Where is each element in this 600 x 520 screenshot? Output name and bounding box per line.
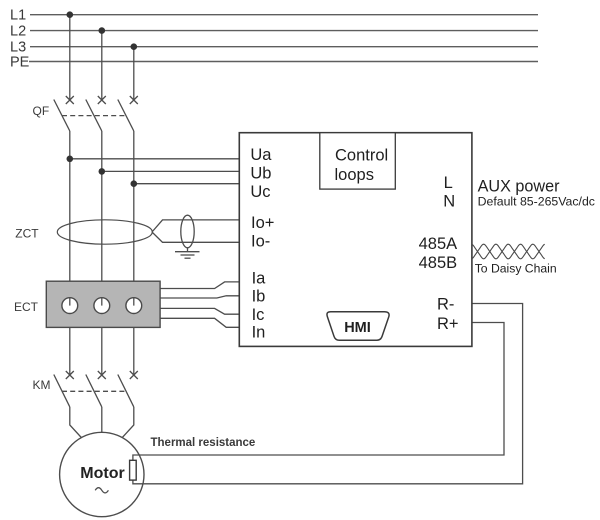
svg-text:KM: KM [33,378,51,392]
svg-text:485A: 485A [419,235,458,253]
svg-text:loops: loops [335,166,374,184]
svg-text:R-: R- [437,296,454,314]
svg-text:HMI: HMI [344,320,371,336]
svg-text:485B: 485B [419,254,458,272]
svg-text:Thermal resistance: Thermal resistance [151,437,256,449]
svg-text:L2: L2 [10,24,26,40]
svg-text:Io-: Io- [251,232,270,250]
svg-text:ZCT: ZCT [15,226,39,240]
svg-text:QF: QF [33,104,50,118]
svg-text:L3: L3 [10,40,26,56]
svg-text:Ib: Ib [252,288,266,306]
svg-text:Ic: Ic [252,306,265,324]
svg-text:Ub: Ub [250,164,271,182]
svg-text:ECT: ECT [14,300,39,314]
svg-text:PE: PE [10,55,30,71]
svg-text:Default 85-265Vac/dc: Default 85-265Vac/dc [478,195,595,209]
svg-text:AUX power: AUX power [478,178,560,196]
svg-text:N: N [443,192,455,210]
svg-text:Io+: Io+ [251,214,274,232]
svg-text:Control: Control [335,146,388,164]
svg-text:Ia: Ia [252,270,267,288]
svg-text:To Daisy Chain: To Daisy Chain [475,262,557,276]
svg-text:In: In [252,324,266,342]
svg-text:L: L [444,174,453,192]
svg-text:R+: R+ [437,315,459,333]
svg-text:Ua: Ua [250,146,272,164]
svg-text:L1: L1 [10,8,26,24]
svg-text:Motor: Motor [80,465,124,482]
svg-text:Uc: Uc [250,183,270,201]
